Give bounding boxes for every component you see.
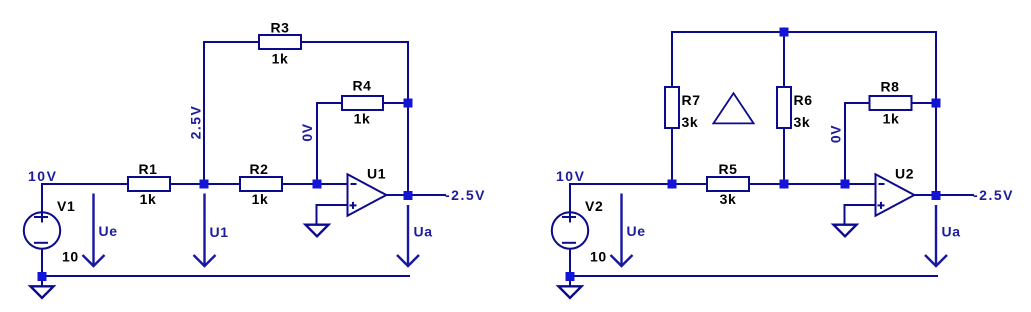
svg-text:Ua: Ua: [414, 224, 433, 240]
ground under V1: [31, 286, 54, 298]
resistor R3: [259, 35, 301, 49]
svg-text:V2: V2: [585, 198, 603, 214]
svg-text:10V: 10V: [556, 168, 585, 184]
node U2 output: [932, 191, 941, 200]
node R6 top rail: [780, 28, 789, 37]
node R4 right: [404, 99, 413, 108]
wire op-amp U2 output: [914, 194, 974, 196]
node R7 bottom: [668, 180, 677, 189]
node junction R1-R2: [200, 180, 209, 189]
svg-text:R7: R7: [682, 92, 701, 108]
svg-text:0V: 0V: [299, 123, 315, 141]
resistor R7: [665, 87, 679, 128]
svg-text:Ue: Ue: [99, 223, 118, 239]
wire V1 top vertical: [41, 183, 43, 213]
svg-text:1k: 1k: [883, 111, 900, 127]
svg-text:-2.5V: -2.5V: [445, 187, 486, 203]
svg-text:R8: R8: [880, 79, 899, 95]
resistor R5: [707, 177, 749, 191]
wire main input line left circuit: [41, 183, 347, 185]
svg-text:R1: R1: [138, 161, 157, 177]
svg-text:1k: 1k: [140, 191, 157, 207]
resistor R8: [870, 96, 912, 110]
wire V1 bottom: [41, 249, 43, 274]
svg-text:1k: 1k: [252, 191, 269, 207]
op-amp U1: [348, 174, 387, 215]
wire R3 top rail: [203, 41, 409, 43]
arrow Ue right: [611, 194, 633, 267]
svg-text:Ua: Ua: [942, 224, 961, 240]
svg-text:U2: U2: [895, 166, 914, 182]
wire op-amp U2 plus input: [845, 205, 876, 224]
wire op-amp output: [386, 194, 446, 196]
node V1 ground: [38, 272, 47, 281]
arrow Ua right: [925, 205, 947, 266]
svg-text:2.5V: 2.5V: [188, 105, 204, 140]
svg-text:V1: V1: [57, 198, 75, 214]
arrow Ue left: [83, 194, 105, 267]
node V2 ground: [566, 272, 575, 281]
wire R4 horizontal: [317, 102, 408, 104]
node R8 right: [932, 99, 941, 108]
wire V2 ground stub: [569, 280, 571, 286]
svg-text:3k: 3k: [794, 114, 811, 130]
wire top rail right circuit: [671, 31, 937, 33]
svg-text:10V: 10V: [28, 168, 57, 184]
svg-text:1k: 1k: [354, 111, 371, 127]
svg-text:0V: 0V: [828, 125, 844, 143]
resistor R1: [128, 177, 170, 191]
svg-text:Ue: Ue: [627, 223, 646, 239]
arrow Ua left: [397, 205, 419, 266]
svg-text:1k: 1k: [272, 51, 289, 67]
ground under V2: [559, 286, 582, 298]
svg-text:R6: R6: [794, 92, 813, 108]
svg-text:3k: 3k: [720, 191, 737, 207]
node minus input U2: [841, 180, 850, 189]
op-amp U2: [876, 174, 915, 215]
triangle annotation: [713, 93, 753, 123]
wire bottom rail left circuit: [42, 275, 410, 277]
svg-text:U1: U1: [210, 224, 229, 240]
svg-text:R5: R5: [718, 161, 737, 177]
node R6 bottom: [780, 180, 789, 189]
node U1 output: [404, 191, 413, 200]
wire V1 ground stub: [41, 280, 43, 286]
svg-text:10: 10: [590, 249, 607, 265]
wire V2 top vertical: [569, 183, 571, 213]
resistor R4: [342, 96, 383, 110]
wire riser node to R3 rail: [203, 41, 205, 184]
wire riser 0V to minus node right: [844, 102, 846, 184]
wire R6 vertical branch: [783, 31, 785, 184]
resistor R2: [240, 177, 282, 191]
wire bottom rail right circuit: [570, 275, 938, 277]
wire R8 horizontal: [845, 102, 936, 104]
node minus input U1: [313, 180, 322, 189]
svg-text:-2.5V: -2.5V: [973, 187, 1014, 203]
wire R7 vertical branch: [671, 31, 673, 184]
ground at U2 plus input: [834, 225, 857, 237]
wire right vertical feedback left circuit: [407, 41, 409, 196]
svg-text:10: 10: [62, 249, 79, 265]
wire main input line right circuit: [569, 183, 875, 185]
ground at U1 plus input: [306, 225, 329, 237]
wire riser 0V to minus node: [316, 102, 318, 184]
voltage source V2: [552, 212, 588, 248]
voltage source V1: [24, 212, 60, 248]
resistor R6: [777, 87, 791, 128]
svg-text:U1: U1: [367, 166, 386, 182]
wire right vertical feedback right circuit: [935, 31, 937, 196]
svg-text:3k: 3k: [682, 114, 699, 130]
wire op-amp plus input: [317, 205, 348, 224]
arrow U1: [194, 194, 216, 267]
wire V2 bottom: [569, 249, 571, 274]
svg-text:R3: R3: [270, 20, 289, 36]
svg-text:R2: R2: [249, 161, 268, 177]
svg-text:R4: R4: [352, 78, 371, 94]
